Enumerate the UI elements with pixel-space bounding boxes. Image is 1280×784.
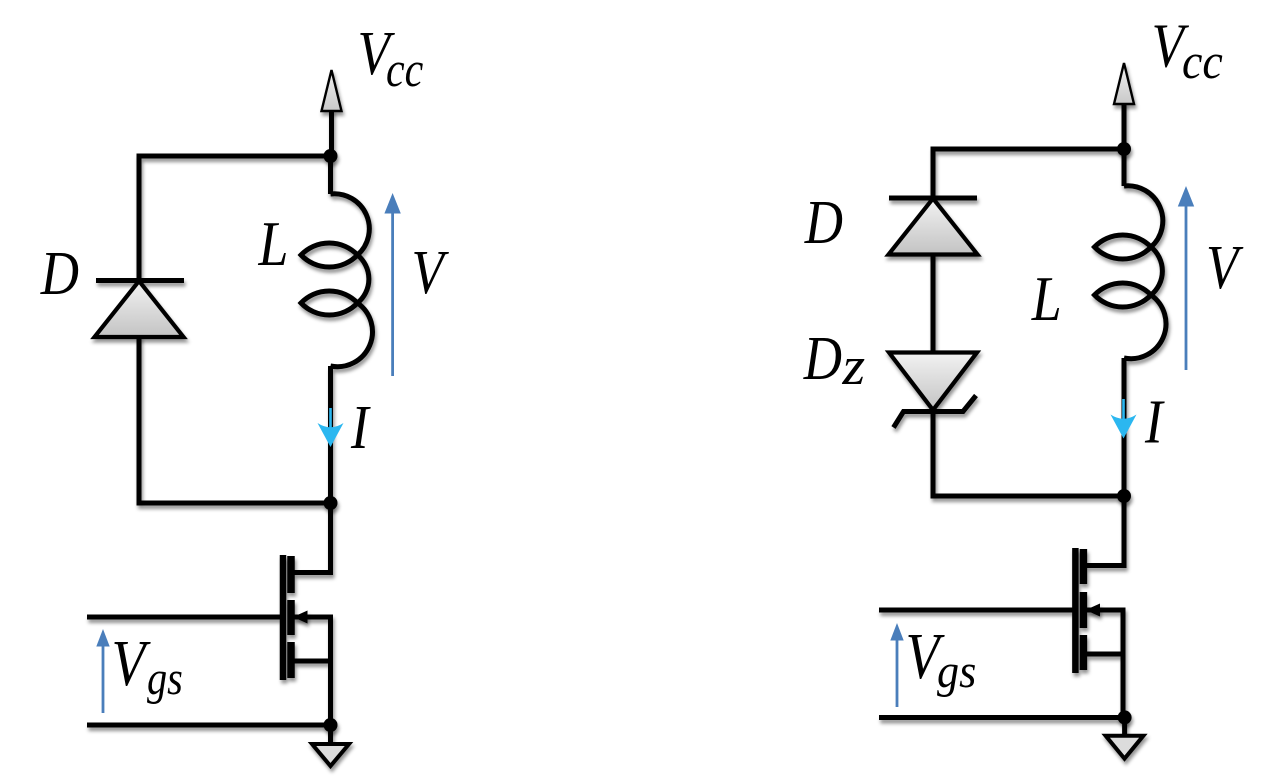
current arrow I left: [318, 408, 344, 447]
transistor Q2 channel segments: [1080, 549, 1088, 670]
svg-text:z: z: [841, 337, 865, 397]
wire source stub right: [1083, 652, 1123, 657]
diode D1 triangle: [95, 281, 184, 337]
svg-text:gs: gs: [147, 652, 183, 705]
svg-text:L: L: [1031, 263, 1062, 334]
power Vcc arrowhead right: [1114, 63, 1134, 104]
wire body-source down right: [1086, 610, 1123, 718]
svg-text:I: I: [350, 392, 371, 462]
diode D2 cathode bar: [889, 196, 977, 201]
wire left top rail: [139, 156, 331, 281]
wire right Vcc stub: [1122, 102, 1127, 149]
inductor L1 left: [301, 194, 372, 367]
wire gate line right: [879, 608, 1075, 613]
diode D2 triangle: [889, 199, 978, 255]
transistor Q1 body arrowhead: [293, 611, 308, 624]
wire node B to drain: [1083, 496, 1124, 566]
transistor Q1 channel segments: [287, 556, 295, 678]
wire source stub left: [291, 659, 331, 664]
node source-left junction dot: [324, 718, 338, 732]
svg-text:cc: cc: [386, 42, 423, 97]
svg-text:D: D: [803, 323, 842, 393]
current arrow I right: [1111, 399, 1137, 439]
transistor Q2 body arrowhead: [1086, 604, 1101, 617]
transistor Q2 gate bar: [1072, 548, 1079, 673]
wire Dz bottom leg: [933, 411, 1124, 496]
svg-text:gs: gs: [937, 644, 976, 697]
zener Dz bar and ticks: [894, 396, 977, 428]
ground right: [1106, 736, 1144, 759]
power Vcc arrowhead left: [322, 70, 342, 111]
wire bottom rail right: [879, 715, 1125, 720]
node source-right junction dot: [1118, 710, 1132, 724]
wire left Vcc stub: [329, 109, 334, 156]
voltage arrow V right: [1178, 186, 1194, 370]
voltage arrow Vgs right: [890, 623, 903, 707]
node B junction dot: [1117, 489, 1131, 503]
ground left: [312, 744, 349, 766]
wire body-source down left: [294, 617, 331, 725]
transistor Q1 gate bar: [280, 555, 287, 680]
node top-left junction dot: [324, 149, 338, 163]
wire right top rail: [933, 149, 1124, 198]
inductor L2 right: [1095, 186, 1166, 359]
wire left diode bottom leg: [139, 336, 331, 504]
wire gate line left: [87, 615, 283, 620]
diode D1 cathode bar: [96, 278, 184, 283]
wire inductor to node B: [1122, 358, 1127, 496]
svg-text:D: D: [40, 238, 79, 308]
wire D2 to Dz: [931, 253, 936, 353]
wire ground stem left: [328, 725, 333, 744]
svg-text:D: D: [804, 187, 843, 257]
svg-text:cc: cc: [1182, 34, 1223, 89]
voltage arrow V left: [384, 193, 400, 376]
wire ground stem right: [1122, 718, 1127, 736]
node A junction dot: [324, 496, 338, 510]
wire inductor to node A: [328, 366, 333, 503]
wire right rail to inductor: [1122, 149, 1127, 186]
wire bottom rail left: [87, 723, 331, 728]
zener Dz triangle: [889, 353, 977, 411]
svg-text:I: I: [1144, 386, 1165, 456]
node top-right junction dot: [1117, 142, 1131, 156]
svg-text:L: L: [258, 208, 289, 279]
voltage arrow Vgs left: [96, 629, 109, 713]
wire node A to drain: [291, 503, 331, 573]
wire left rail to inductor: [328, 156, 333, 194]
